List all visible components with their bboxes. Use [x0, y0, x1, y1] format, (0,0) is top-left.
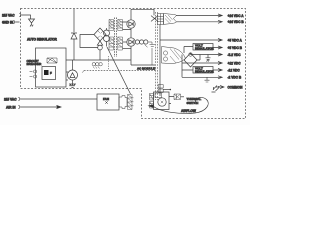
- harness dashed: [84, 70, 155, 72]
- connector column dashed pair: [156, 12, 158, 100]
- dark glyph: [44, 70, 49, 75]
- transformer T1 primary: [104, 30, 110, 36]
- fan2 sub box: [155, 93, 162, 98]
- regulator box U2: [193, 67, 213, 74]
- primary winding hatch: [109, 20, 114, 31]
- wire: [66, 59, 131, 61]
- fan2 box: [154, 92, 170, 110]
- rectifier CR2: [127, 20, 135, 28]
- connector shell: [164, 14, 177, 25]
- wire: [182, 76, 218, 78]
- inner module box: [42, 67, 56, 80]
- gnd connector: [14, 20, 20, 23]
- svg-text:115 VAC: 115 VAC: [4, 97, 17, 101]
- svg-text:REGULATOR: REGULATOR: [195, 46, 215, 50]
- svg-text:SWITCH: SWITCH: [187, 101, 199, 105]
- line filter box A1: [36, 48, 67, 87]
- airflow loop: [153, 98, 208, 114]
- arrow row2: [218, 20, 222, 23]
- wire: [191, 53, 201, 60]
- svg-text:AUTO REGULATOR: AUTO REGULATOR: [27, 38, 57, 42]
- svg-text:+5 VDC A: +5 VDC A: [228, 38, 243, 42]
- winding bottom tap: [123, 48, 132, 50]
- fan2 connector pins: [150, 94, 154, 109]
- arrow row5: [218, 53, 222, 56]
- svg-text:AIRFLOW: AIRFLOW: [181, 109, 196, 113]
- fan plug: [119, 96, 127, 109]
- airflow arrowhead: [148, 104, 155, 108]
- svg-text:-2 VDC B: -2 VDC B: [228, 76, 242, 80]
- svg-text:COMMON: COMMON: [228, 85, 244, 89]
- svg-text:+24 VDC A: +24 VDC A: [228, 14, 245, 18]
- wire: [182, 55, 218, 78]
- transformer core: [115, 18, 117, 58]
- arrow common: [220, 85, 224, 88]
- arrow row1: [218, 14, 222, 17]
- safety ground wire: [73, 9, 75, 32]
- top output connector grid: [158, 14, 164, 25]
- filter cap C1: [150, 42, 156, 65]
- connector hatch inside box: [47, 58, 57, 63]
- winding tap wire: [123, 41, 127, 43]
- diode CR1: [71, 33, 77, 60]
- wire: [169, 97, 174, 104]
- input connector J1: [20, 13, 24, 17]
- svg-text:BREAKER: BREAKER: [27, 62, 43, 66]
- shield dashed: [108, 56, 110, 70]
- dc bus wire: [131, 9, 155, 65]
- air connector: [19, 105, 23, 109]
- svg-text:+5 VDC B: +5 VDC B: [228, 46, 243, 50]
- chassis ground: [29, 19, 35, 27]
- common ground: [212, 86, 221, 93]
- fan motor circle: [158, 98, 166, 106]
- bridge rectifier diamond: [94, 28, 106, 41]
- winding tap wires: [123, 22, 132, 30]
- wire +5: [160, 39, 218, 41]
- cap C3: [205, 77, 210, 82]
- arrow row6: [218, 62, 222, 65]
- thermal connector hatch: [174, 94, 181, 100]
- arrow row7: [218, 69, 222, 72]
- svg-text:FAN: FAN: [103, 97, 109, 101]
- twisted pair X: [151, 16, 158, 22]
- arrow row4: [218, 46, 222, 49]
- svg-text:GND IN: GND IN: [2, 21, 14, 25]
- bridge rectifier B2: [184, 53, 197, 67]
- wire: [177, 15, 219, 17]
- Y harness connector: [162, 47, 186, 64]
- ground: [69, 84, 76, 88]
- secondary winding hatch: [118, 20, 123, 31]
- arrow row8: [218, 76, 222, 79]
- svg-text:115 VAC: 115 VAC: [2, 13, 15, 17]
- wire: [24, 15, 31, 19]
- svg-text:AIR IN: AIR IN: [6, 106, 16, 110]
- svg-text:AC MODULE: AC MODULE: [137, 67, 155, 71]
- regulator box U1: [193, 44, 213, 51]
- connector pins left: [30, 70, 37, 78]
- svg-text:+12 VDC: +12 VDC: [228, 61, 242, 65]
- svg-text:F: F: [50, 71, 52, 75]
- enclosure dashed outline: [21, 9, 246, 119]
- rectifier CR3: [127, 38, 135, 46]
- inductor L1: [135, 40, 139, 44]
- svg-text:+24 VDC B: +24 VDC B: [228, 20, 245, 24]
- fan connector: [19, 97, 23, 101]
- diode to gnd: [97, 41, 102, 45]
- bus terminal boxes: [158, 85, 163, 93]
- wire to varistor: [66, 72, 68, 80]
- varistor circle diode: [68, 70, 78, 80]
- fan receptacle hatch: [128, 95, 133, 110]
- svg-text:REGULATOR: REGULATOR: [195, 69, 215, 73]
- wire: [177, 21, 219, 23]
- svg-text:-5.2 VDC: -5.2 VDC: [228, 53, 242, 57]
- svg-text:-12 VDC: -12 VDC: [228, 68, 241, 72]
- cap C2: [200, 55, 218, 62]
- harness connector circles: [92, 62, 95, 65]
- fan box B1: [97, 94, 119, 110]
- bus line: [159, 25, 161, 97]
- wire: [23, 98, 98, 100]
- wire: [80, 35, 98, 48]
- fan feed wire diagonal: [107, 47, 131, 94]
- arrow row3: [218, 39, 222, 42]
- air arrow: [23, 105, 63, 109]
